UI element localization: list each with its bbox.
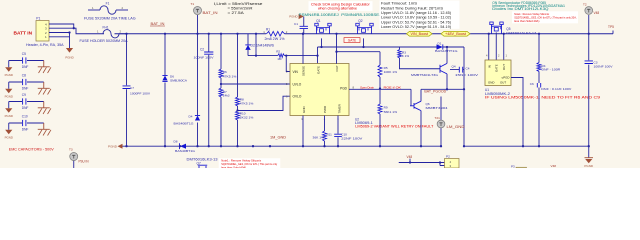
- svg-text:less than Sdsd 40A): less than Sdsd 40A): [514, 19, 539, 23]
- svg-text:P1: P1: [36, 17, 40, 21]
- svg-text:PSU IN: PSU IN: [79, 160, 90, 164]
- svg-text:Open Drain: Open Drain: [360, 86, 374, 90]
- svg-text:V48: V48: [407, 155, 413, 159]
- svg-text:DMT6013LK3-13: DMT6013LK3-13: [506, 31, 536, 35]
- svg-text:PGND: PGND: [65, 56, 73, 60]
- svg-text:R6: R6: [223, 70, 227, 74]
- svg-text:Q1: Q1: [316, 19, 320, 23]
- svg-text:SENSE: SENSE: [301, 66, 305, 76]
- svg-text:47K5 1%: 47K5 1%: [223, 74, 237, 78]
- svg-text:FUSE 5X20MM 20A TIME LAG: FUSE 5X20MM 20A TIME LAG: [84, 16, 136, 20]
- svg-text:= 55mV/2mR: = 55mV/2mR: [228, 7, 254, 11]
- svg-text:D8: D8: [174, 139, 178, 143]
- svg-text:GND: GND: [302, 106, 306, 114]
- svg-text:IN: IN: [487, 65, 491, 68]
- svg-text:PGND: PGND: [5, 135, 13, 139]
- svg-text:PGND: PGND: [5, 94, 13, 98]
- svg-text:Upper UVLO: 11.8V (range 11.16: Upper UVLO: 11.8V (range 11.16 - 12.45): [381, 11, 451, 15]
- svg-text:BAT_PGOOD: BAT_PGOOD: [424, 90, 447, 94]
- svg-text:Fault Timeout: 1mS: Fault Timeout: 1mS: [381, 2, 418, 6]
- svg-text:DNF: DNF: [22, 127, 29, 131]
- svg-text:less than Sdsd 40A): less than Sdsd 40A): [221, 165, 246, 168]
- svg-text:SQD70140EL_GE3, (OK for ETL (: SQD70140EL_GE3, (OK for ETL ( This part …: [514, 16, 577, 20]
- svg-text:PSMN4R8-100BSEJ: PSMN4R8-100BSEJ: [341, 13, 382, 17]
- svg-text:PGND: PGND: [289, 15, 297, 19]
- svg-text:C8: C8: [22, 74, 26, 78]
- svg-text:VIN_Boost: VIN_Boost: [411, 32, 429, 36]
- svg-text:PGND: PGND: [5, 73, 13, 77]
- svg-text:ROE if OK: ROE if OK: [384, 86, 402, 90]
- svg-text:V48: V48: [551, 164, 557, 168]
- svg-text:PSMN4R8-100BSEJ: PSMN4R8-100BSEJ: [299, 13, 340, 17]
- svg-text:2m8 2W 1%: 2m8 2W 1%: [265, 37, 285, 41]
- svg-text:Restart Time During Fault: 26*: Restart Time During Fault: 26*1mS: [381, 6, 444, 10]
- svg-text:R2: R2: [276, 50, 280, 54]
- svg-text:IF USING LM5050MK-1, NEED TO F: IF USING LM5050MK-1, NEED TO FIT R6 AND …: [485, 96, 600, 100]
- svg-text:GATE: GATE: [495, 64, 499, 72]
- svg-text:BAS40BT1G: BAS40BT1G: [174, 121, 195, 125]
- svg-text:C4: C4: [466, 66, 470, 70]
- svg-text:TIMER: TIMER: [338, 103, 342, 113]
- svg-text:when chosing alternative: when chosing alternative: [318, 6, 357, 10]
- svg-text:T21: T21: [435, 116, 441, 120]
- svg-text:VIN: VIN: [293, 70, 299, 74]
- svg-text:GATE: GATE: [316, 66, 320, 74]
- svg-text:= 27.5A: = 27.5A: [228, 11, 245, 15]
- svg-text:TP5: TP5: [608, 25, 614, 29]
- svg-text:MMBT5401LT3G: MMBT5401LT3G: [411, 73, 439, 77]
- svg-text:DNF : 0.1UF 100V: DNF : 0.1UF 100V: [541, 87, 572, 91]
- svg-text:36K 1%: 36K 1%: [313, 135, 325, 139]
- svg-text:P3: P3: [511, 164, 515, 168]
- svg-text:C6: C6: [530, 82, 534, 86]
- svg-text:1M_GND: 1M_GND: [270, 135, 287, 139]
- svg-text:UVLO: UVLO: [293, 83, 302, 87]
- svg-text:MMBT3904: MMBT3904: [426, 106, 448, 110]
- svg-text:15NF 100V: 15NF 100V: [455, 73, 479, 77]
- svg-text:C9: C9: [22, 93, 26, 97]
- svg-text:FH1: FH1: [103, 26, 109, 30]
- svg-text:1000PF 100V: 1000PF 100V: [130, 92, 151, 96]
- svg-text:Note1 : Remove Vishay Siliconi: Note1 : Remove Vishay Siliconix: [514, 12, 550, 16]
- svg-text:OVLO: OVLO: [293, 95, 302, 99]
- svg-text:LM5069-2 VARIANT WILL RETRY ON: LM5069-2 VARIANT WILL RETRY ON FAULT: [355, 125, 433, 129]
- svg-text:DNF - 100R: DNF - 100R: [542, 68, 562, 72]
- svg-text:100K 1%: 100K 1%: [384, 70, 398, 74]
- svg-text:Upper OVLO: 53.7V (range 52.61: Upper OVLO: 53.7V (range 52.61 - 54.76): [381, 20, 451, 24]
- svg-text:D2 1N4148WS: D2 1N4148WS: [251, 43, 275, 47]
- svg-text:D1: D1: [438, 41, 442, 45]
- svg-text:2K32 1%: 2K32 1%: [240, 115, 254, 119]
- svg-text:T3: T3: [69, 147, 73, 151]
- svg-text:DMT6016LK3-13: DMT6016LK3-13: [187, 158, 218, 162]
- svg-text:BAT_IN: BAT_IN: [203, 11, 219, 15]
- svg-text:P2: P2: [446, 155, 450, 159]
- svg-text:C1: C1: [294, 22, 298, 26]
- svg-text:PGND: PGND: [5, 114, 13, 118]
- svg-text:PGND: PGND: [108, 145, 118, 149]
- svg-text:Q2: Q2: [358, 19, 362, 23]
- svg-text:BAT_IN: BAT_IN: [151, 22, 166, 26]
- svg-text:PWR: PWR: [323, 105, 327, 113]
- svg-text:BATT IN: BATT IN: [14, 31, 33, 37]
- svg-text:C7: C7: [130, 86, 134, 90]
- svg-text:47K5 1%: 47K5 1%: [240, 101, 254, 105]
- svg-text:+48V_Boost: +48V_Boost: [445, 32, 466, 36]
- svg-text:OUT: OUT: [335, 65, 339, 72]
- svg-text:GATE: GATE: [348, 39, 356, 43]
- svg-text:SMBJ60CA: SMBJ60CA: [170, 79, 188, 83]
- svg-text:R11: R11: [327, 132, 333, 136]
- svg-text:100NF 100V: 100NF 100V: [594, 64, 614, 68]
- svg-text:1M: 1M: [277, 57, 282, 61]
- svg-text:Lower OVLO: 52.7V (range 51.19: Lower OVLO: 52.7V (range 51.19 - 54.19): [381, 25, 451, 29]
- svg-text:T1: T1: [191, 2, 195, 6]
- svg-text:DNF: DNF: [22, 86, 29, 90]
- svg-text:EMC CAPACITORS - 500V: EMC CAPACITORS - 500V: [9, 148, 55, 152]
- svg-text:uPGD: uPGD: [502, 76, 510, 80]
- svg-text:Q4: Q4: [452, 64, 456, 68]
- svg-text:PGND: PGND: [584, 164, 594, 168]
- svg-text:OUT: OUT: [500, 80, 506, 84]
- svg-text:22NF 100V: 22NF 100V: [341, 136, 362, 140]
- svg-text:LM_GND: LM_GND: [447, 125, 466, 129]
- svg-text:PGD: PGD: [340, 86, 348, 90]
- svg-text:D4: D4: [189, 115, 193, 119]
- svg-text:Header, 4-Pin, RA, 35A: Header, 4-Pin, RA, 35A: [26, 43, 64, 47]
- svg-text:R1: R1: [266, 27, 270, 31]
- svg-text:R9: R9: [384, 106, 388, 110]
- svg-text:14k3: 14k3: [223, 94, 230, 98]
- svg-text:I,Limit = 55mV/Rsense: I,Limit = 55mV/Rsense: [214, 2, 263, 6]
- svg-text:Diodes Inc DMT10H12LK3Q: Diodes Inc DMT10H12LK3Q: [492, 7, 549, 11]
- svg-text:FUSE HOLDER 5X20MM 20A: FUSE HOLDER 5X20MM 20A: [80, 39, 129, 43]
- svg-text:BAS40BT1G: BAS40BT1G: [175, 149, 196, 153]
- svg-text:GND: GND: [488, 80, 494, 84]
- svg-text:OUT: OUT: [502, 64, 506, 70]
- svg-text:DNF: DNF: [22, 65, 29, 69]
- svg-text:1K 1%: 1K 1%: [400, 54, 409, 58]
- svg-text:56K1 1%: 56K1 1%: [384, 110, 398, 114]
- svg-text:Lower UVLO: 10.6V (range 10.59: Lower UVLO: 10.6V (range 10.59 - 11.02): [381, 16, 451, 20]
- svg-text:T2: T2: [583, 2, 587, 6]
- svg-text:C2: C2: [200, 47, 204, 51]
- svg-text:F1: F1: [106, 1, 110, 5]
- svg-text:V48: V48: [594, 11, 600, 15]
- svg-text:100NF 100V: 100NF 100V: [194, 56, 215, 60]
- svg-text:DNF: DNF: [22, 106, 29, 110]
- svg-text:C10: C10: [22, 115, 28, 119]
- svg-text:C5: C5: [22, 52, 26, 56]
